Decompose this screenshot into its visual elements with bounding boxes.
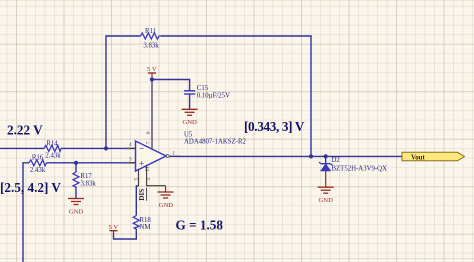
node junction R16/R17: [74, 161, 78, 165]
svg-text:BZT52H-A3V9-QX: BZT52H-A3V9-QX: [332, 165, 388, 172]
svg-text:3.83k: 3.83k: [81, 181, 97, 188]
svg-text:C15: C15: [197, 85, 209, 92]
svg-text:GND: GND: [319, 197, 334, 204]
resistor R14: [44, 140, 61, 159]
ground for D2: [318, 187, 334, 204]
svg-text:R11: R11: [145, 28, 156, 35]
svg-text:2.22 V: 2.22 V: [7, 123, 43, 138]
svg-text:5 V: 5 V: [109, 224, 119, 231]
svg-text:3.83k: 3.83k: [143, 43, 159, 50]
svg-text:6: 6: [146, 131, 152, 134]
wire output to port: [169, 155, 402, 157]
ground for C15: [182, 109, 198, 126]
wire R16 input from bottom edge: [23, 163, 136, 262]
svg-text:1: 1: [173, 151, 176, 157]
op-amp U5: [136, 131, 247, 171]
pin 5 DIS stub: [133, 170, 139, 187]
pin 1 (output): [169, 151, 181, 157]
svg-text:4: 4: [129, 142, 132, 148]
svg-text:R14: R14: [46, 140, 58, 147]
node junction 5V/C15: [150, 77, 154, 81]
svg-text:R16: R16: [32, 155, 44, 162]
svg-text:GND: GND: [159, 202, 174, 209]
resistor R16: [29, 155, 47, 174]
svg-text:2.43k: 2.43k: [30, 167, 46, 174]
svg-text:Vout: Vout: [411, 154, 425, 161]
wire DIS to R18: [136, 186, 138, 216]
resistor R18: [133, 216, 151, 232]
svg-text:0.10µF/25V: 0.10µF/25V: [197, 93, 230, 100]
node annotation [2.5, 4.2] V: [0, 180, 61, 195]
resistor R11: [141, 28, 162, 50]
svg-text:DIS: DIS: [138, 189, 146, 201]
svg-text:+: +: [139, 159, 144, 169]
node junction feedback/output: [309, 154, 313, 158]
svg-text:G = 1.58: G = 1.58: [176, 218, 224, 233]
gain annotation G = 1.58: [176, 218, 224, 233]
node annotation 2.22 V: [7, 123, 43, 138]
diode D2 zener: [319, 156, 387, 172]
svg-text:GND: GND: [69, 209, 84, 216]
svg-text:7: 7: [146, 141, 152, 144]
svg-text:R17: R17: [81, 173, 93, 180]
power 5V (top, op-amp supply): [147, 66, 157, 79]
capacitor C15: [184, 85, 230, 109]
pin 4 (inverting input): [127, 142, 136, 150]
wire 5V to C15: [152, 80, 190, 91]
port Vout: [402, 152, 465, 161]
svg-text:2: 2: [146, 178, 152, 181]
svg-text:5: 5: [133, 178, 139, 181]
node junction D2/output: [324, 154, 328, 158]
svg-text:−: −: [139, 144, 144, 154]
svg-text:11: 11: [145, 166, 151, 171]
pin 7 supply pin vertical: [146, 80, 153, 150]
svg-text:GND: GND: [182, 119, 197, 126]
svg-text:R18: R18: [140, 217, 152, 224]
svg-text:[0.343, 3] V: [0.343, 3] V: [244, 119, 305, 134]
node annotation [0.343, 3] V: [244, 119, 305, 134]
svg-text:5 V: 5 V: [147, 66, 157, 73]
svg-text:NM: NM: [140, 224, 151, 231]
svg-text:D2: D2: [332, 157, 341, 164]
DIS name with overbar: [138, 188, 147, 201]
wire R18 to 5V: [114, 229, 137, 239]
svg-text:U5: U5: [184, 131, 193, 138]
svg-text:ADA4807-1AKSZ-R2: ADA4807-1AKSZ-R2: [184, 139, 247, 146]
node junction on R14 wire: [104, 146, 108, 150]
pin 3 (non-inverting input): [127, 156, 136, 164]
svg-text:2.43k: 2.43k: [45, 152, 61, 159]
wire R14 input: [0, 147, 136, 149]
ground at op-amp pin 2: [158, 186, 174, 209]
wire D2 to ground: [325, 171, 327, 187]
resistor R17: [73, 163, 96, 198]
pin 2 ground stub: [145, 166, 166, 186]
ground for R17: [68, 199, 84, 216]
svg-text:[2.5, 4.2] V: [2.5, 4.2] V: [0, 180, 61, 195]
svg-text:3: 3: [129, 156, 132, 162]
wire top feedback loop: [106, 36, 311, 156]
power 5V (bottom, to R18): [109, 224, 119, 233]
